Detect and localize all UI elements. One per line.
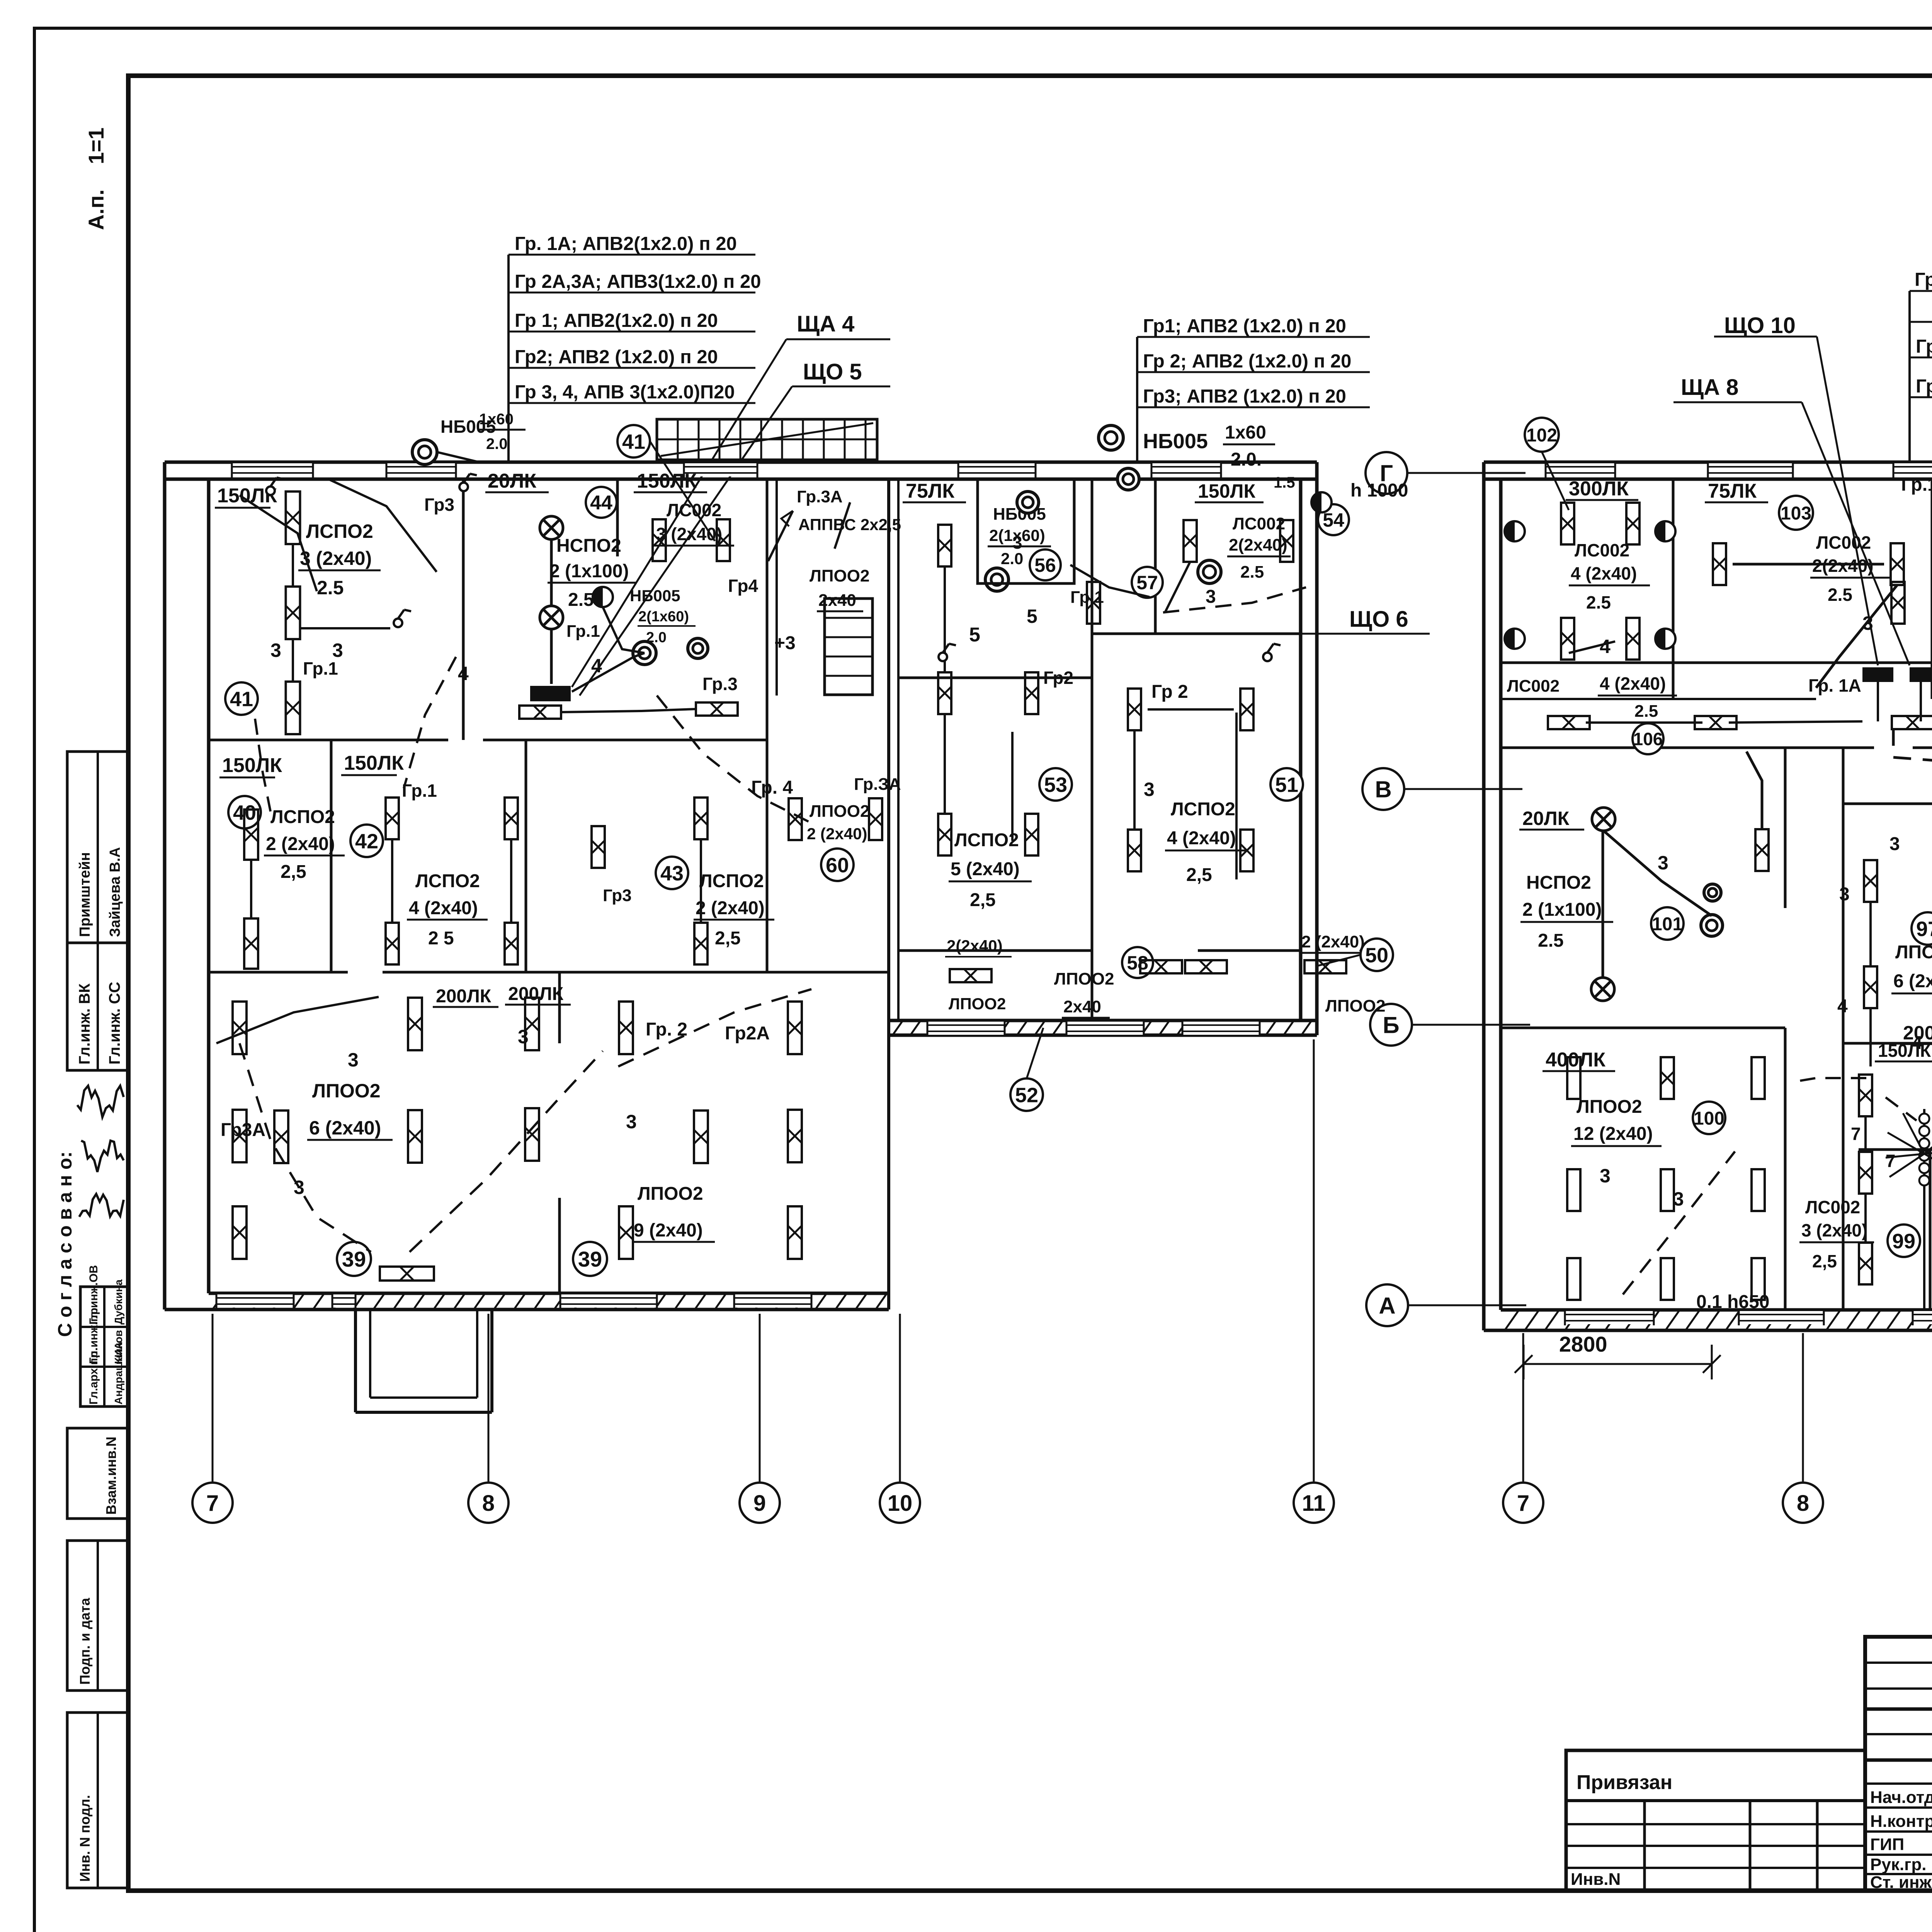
room/axis label 39: [337, 1242, 371, 1276]
luminaire: [233, 1002, 247, 1054]
room/axis label 9: [740, 1483, 780, 1523]
svg-text:ЛПОО2: ЛПОО2: [638, 1184, 703, 1204]
wall lamp: [688, 638, 708, 658]
wire: [1877, 682, 1879, 721]
svg-text:400ЛК: 400ЛК: [1546, 1049, 1605, 1071]
wire: [1886, 1097, 1917, 1121]
svg-text:ЛСПО2: ЛСПО2: [954, 830, 1019, 850]
svg-text:75ЛК: 75ЛК: [906, 480, 954, 502]
wire: [1893, 728, 1932, 763]
svg-text:ЛПОО2: ЛПОО2: [1054, 969, 1114, 988]
svg-text:ЛС002: ЛС002: [667, 500, 721, 520]
svg-text:Примштейн: Примштейн: [77, 852, 93, 937]
room/axis label 54: [1318, 504, 1349, 535]
wire: [1864, 1194, 1867, 1243]
luminaire: [1864, 860, 1877, 902]
sconce lamp: [1505, 521, 1525, 541]
svg-text:53: 53: [1044, 773, 1067, 796]
axis 8r: [1802, 1333, 1804, 1481]
svg-text:102: 102: [1526, 425, 1557, 446]
corridor walls right plan: [1501, 662, 1932, 664]
svg-text:3: 3: [1889, 834, 1900, 854]
svg-text:2 (1х100): 2 (1х100): [1522, 900, 1602, 920]
wall lamp: [1117, 468, 1139, 490]
wire: [328, 479, 437, 572]
wire: [1133, 730, 1136, 830]
wire: [1864, 1116, 1867, 1152]
svg-text:42: 42: [355, 830, 378, 853]
room/axis label 40: [228, 796, 261, 828]
svg-text:Гр. 1А: Гр. 1А: [1808, 675, 1861, 696]
luminaire: [869, 798, 882, 840]
room/axis label 103: [1779, 496, 1813, 530]
luminaire: [694, 798, 707, 839]
svg-text:2 (2х40): 2 (2х40): [266, 834, 335, 854]
wire: [561, 709, 696, 712]
pendant lamp: [1591, 978, 1614, 1001]
svg-text:ЛПОО2: ЛПОО2: [1577, 1097, 1642, 1117]
luminaire: [1661, 1057, 1674, 1099]
svg-text:+3: +3: [774, 633, 796, 653]
room/axis label 10: [880, 1483, 920, 1523]
svg-text:6 (2х40): 6 (2х40): [1893, 971, 1932, 992]
luminaire: [1713, 543, 1726, 585]
svg-text:Взам.инв.N: Взам.инв.N: [103, 1437, 119, 1515]
svg-text:ЛПОО2: ЛПОО2: [312, 1080, 381, 1102]
panel ЩА8: [1910, 667, 1932, 682]
svg-text:101: 101: [1652, 914, 1683, 934]
svg-text:Гр.3А: Гр.3А: [797, 487, 843, 506]
window: [1565, 1311, 1654, 1324]
svg-text:4: 4: [458, 663, 469, 684]
svg-text:С о г л а с о в а н о:: С о г л а с о в а н о:: [54, 1151, 76, 1337]
room/axis label 100: [1693, 1102, 1725, 1134]
wire: [572, 653, 645, 692]
svg-text:ЛСПО2: ЛСПО2: [306, 520, 373, 542]
room/axis label 102: [1525, 418, 1559, 452]
svg-text:20ЛК: 20ЛК: [1522, 808, 1570, 829]
wire: [1869, 1008, 1872, 1066]
luminaire: [1240, 830, 1253, 871]
wall lamp: [1704, 884, 1721, 901]
svg-text:1.5: 1.5: [1274, 474, 1295, 491]
svg-text:3 (2х40): 3 (2х40): [300, 548, 372, 569]
wire: [618, 989, 811, 1066]
luminaire: [1184, 520, 1197, 562]
svg-text:5: 5: [969, 624, 980, 646]
svg-text:ЛС002: ЛС002: [1507, 677, 1560, 696]
room/axis label 99: [1888, 1225, 1920, 1257]
svg-text:Гр. 1А; АПВ2(1х2.0) п 20: Гр. 1А; АПВ2(1х2.0) п 20: [515, 233, 737, 254]
wall lamp: [1017, 492, 1039, 513]
luminaire: [1661, 1258, 1674, 1300]
svg-text:2.5: 2.5: [317, 577, 344, 599]
svg-text:7: 7: [1517, 1491, 1529, 1516]
wall lamp: [1701, 915, 1723, 936]
window: [927, 1022, 1005, 1035]
wire: [410, 1051, 603, 1252]
svg-text:ЛС002: ЛС002: [1805, 1197, 1860, 1217]
wire: [292, 544, 294, 587]
svg-text:ЛСПО2: ЛСПО2: [1171, 799, 1235, 820]
luminaire: [274, 1111, 288, 1163]
svg-text:52: 52: [1015, 1083, 1038, 1107]
svg-text:ЛС002: ЛС002: [1575, 540, 1629, 560]
wire: [1542, 452, 1569, 510]
svg-text:6 (2х40): 6 (2х40): [309, 1117, 381, 1139]
sconce lamp: [1655, 521, 1675, 541]
luminaire: [286, 492, 300, 544]
wire: [550, 629, 553, 684]
luminaire: [1891, 582, 1905, 624]
svg-text:2 5: 2 5: [428, 928, 454, 949]
wire: [404, 657, 456, 788]
svg-text:2(2х40): 2(2х40): [947, 937, 1003, 955]
pendant lamp: [540, 516, 563, 539]
panel ЩО10: [1862, 667, 1893, 682]
svg-text:3: 3: [1206, 587, 1216, 607]
wall lamp: [1099, 425, 1123, 450]
svg-text:44: 44: [590, 492, 612, 514]
svg-text:4: 4: [1600, 636, 1611, 657]
svg-text:Гр.1: Гр.1: [402, 781, 437, 801]
svg-text:8: 8: [1797, 1491, 1809, 1516]
window: [958, 463, 1036, 476]
luminaire: [1859, 1243, 1872, 1284]
svg-text:1=1: 1=1: [84, 128, 108, 164]
svg-text:2,5: 2,5: [281, 862, 306, 882]
luminaire: [505, 798, 518, 839]
axis 11: [1313, 1039, 1315, 1481]
title block signature table: [1865, 1637, 1932, 1891]
svg-text:Инв. N подл.: Инв. N подл.: [77, 1795, 93, 1882]
svg-text:3: 3: [1673, 1188, 1684, 1210]
svg-text:ЛС002: ЛС002: [1233, 514, 1285, 533]
svg-text:4: 4: [1837, 996, 1848, 1017]
wire: [1148, 708, 1234, 711]
luminaire: [505, 923, 518, 964]
switch: [266, 486, 275, 495]
svg-text:ЛСПО2: ЛСПО2: [270, 807, 335, 827]
switch: [459, 483, 468, 491]
svg-text:3: 3: [270, 639, 281, 661]
luminaire: [1087, 582, 1100, 624]
svg-text:h 1000: h 1000: [1350, 480, 1408, 501]
room/axis label 39: [573, 1242, 607, 1276]
svg-text:4: 4: [1912, 1033, 1922, 1053]
luminaire: [1859, 1075, 1872, 1116]
room/axis label 41: [225, 682, 258, 715]
wire: [255, 719, 270, 811]
svg-text:Ст. инж.: Ст. инж.: [1870, 1873, 1932, 1892]
wire: [77, 1086, 124, 1117]
luminaire: [1561, 503, 1574, 544]
luminaire: [1892, 716, 1932, 729]
sconce lamp: [1311, 492, 1332, 512]
svg-text:11: 11: [1302, 1491, 1325, 1516]
wire: [1623, 1151, 1735, 1294]
luminaire: [592, 826, 605, 868]
svg-text:Гр 2,3; АПВ3 (1х2.0) п 20: Гр 2,3; АПВ3 (1х2.0) п 20: [1916, 376, 1932, 397]
svg-text:Гр.1А, 2А,3А, АПВ4(1х2.0)п20: Гр.1А, 2А,3А, АПВ4(1х2.0)п20: [1915, 269, 1932, 290]
wire: [1923, 1109, 1925, 1310]
svg-text:2(1х60): 2(1х60): [638, 609, 689, 625]
luminaire: [1752, 1258, 1765, 1300]
room/axis label 11: [1294, 1483, 1334, 1523]
wire: [661, 423, 873, 456]
window: [1913, 1311, 1932, 1324]
sconce lamp: [1655, 629, 1675, 649]
svg-text:58: 58: [1127, 952, 1148, 974]
luminaire: [788, 1002, 802, 1054]
svg-text:ЛПОО2: ЛПОО2: [1325, 997, 1385, 1015]
svg-text:Гр 1; АПВ2(1х2.0) п 20: Гр 1; АПВ2(1х2.0) п 20: [515, 310, 718, 331]
room/axis label 53: [1039, 768, 1072, 801]
axis 9: [759, 1314, 761, 1481]
svg-text:2 (2х40): 2 (2х40): [696, 898, 765, 918]
wire: [1027, 1028, 1043, 1078]
room/axis label 50: [1361, 939, 1393, 971]
wire: [391, 839, 393, 923]
svg-text:43: 43: [660, 862, 684, 885]
svg-text:150ЛК: 150ЛК: [222, 754, 282, 777]
svg-text:7: 7: [1886, 1151, 1896, 1171]
svg-text:4 (2х40): 4 (2х40): [1167, 828, 1236, 849]
svg-text:3: 3: [1839, 884, 1850, 905]
luminaire: [653, 519, 666, 561]
svg-text:ЩА 8: ЩА 8: [1681, 375, 1738, 400]
room/axis label В: [1362, 768, 1404, 810]
luminaire: [694, 923, 707, 964]
svg-text:ГИП: ГИП: [1870, 1835, 1904, 1854]
privyazan table: [1566, 1750, 1865, 1891]
luminaire: [1752, 1169, 1765, 1211]
window: [332, 1294, 355, 1308]
window: [1066, 1022, 1144, 1035]
luminaire: [525, 1108, 539, 1161]
room/axis label 7: [192, 1483, 233, 1523]
switch: [1263, 653, 1272, 661]
room/axis label 8: [1783, 1483, 1823, 1523]
svg-text:20ЛК: 20ЛК: [488, 470, 536, 492]
window: [734, 1294, 811, 1308]
podp i data box: [67, 1541, 128, 1690]
wire: [240, 495, 317, 591]
svg-text:Рук.гр.: Рук.гр.: [1870, 1855, 1927, 1874]
sconce lamp: [1505, 629, 1525, 649]
svg-text:КИА: КИА: [112, 1342, 124, 1364]
svg-text:3: 3: [1658, 852, 1668, 874]
svg-text:2.0.: 2.0.: [1231, 449, 1262, 470]
svg-text:3: 3: [294, 1177, 304, 1198]
room/axis label 57: [1132, 567, 1163, 598]
svg-text:3 (2х40): 3 (2х40): [1801, 1220, 1867, 1240]
wire: [1586, 721, 1702, 724]
luminaire: [938, 814, 951, 855]
room/axis label 60: [821, 849, 854, 881]
svg-text:Гр2; АПВ2 (1х2.0) п 20: Гр2; АПВ2 (1х2.0) п 20: [515, 347, 718, 367]
svg-text:2(2х40): 2(2х40): [1812, 556, 1874, 576]
svg-text:50: 50: [1365, 944, 1388, 967]
svg-text:106: 106: [1633, 729, 1663, 749]
vzam inv box: [67, 1428, 128, 1519]
luminaire: [386, 798, 399, 839]
luminaire: [1626, 618, 1639, 660]
wire: [580, 386, 792, 696]
luminaire: [519, 706, 561, 719]
luminaire: [1304, 960, 1346, 973]
svg-text:99: 99: [1892, 1230, 1915, 1253]
svg-text:4 (2х40): 4 (2х40): [1600, 673, 1666, 694]
svg-text:2.5: 2.5: [568, 590, 594, 610]
svg-text:3: 3: [348, 1049, 359, 1071]
axis 8: [488, 1314, 490, 1481]
svg-text:41: 41: [230, 687, 253, 711]
luminaire: [788, 1110, 802, 1162]
inv N podl box: [67, 1713, 128, 1888]
svg-text:Б: Б: [1383, 1012, 1399, 1038]
svg-text:100: 100: [1694, 1108, 1725, 1129]
wire: [300, 627, 390, 629]
svg-text:А.п.: А.п.: [84, 189, 108, 230]
svg-text:Гр.ЗА: Гр.ЗА: [854, 775, 901, 794]
svg-text:АППВС 2х2,5: АППВС 2х2,5: [798, 515, 901, 534]
luminaire: [717, 519, 730, 561]
window: [1893, 463, 1932, 476]
luminaire: [244, 810, 258, 860]
wire: [1235, 713, 1238, 879]
luminaire: [525, 998, 539, 1050]
svg-text:12 (2х40): 12 (2х40): [1573, 1124, 1653, 1144]
wall lamp: [1198, 560, 1221, 583]
svg-text:5: 5: [1027, 605, 1037, 627]
wire: [650, 441, 715, 541]
luminaire: [244, 918, 258, 969]
svg-text:60: 60: [826, 854, 849, 877]
svg-text:0.1 h650: 0.1 h650: [1696, 1292, 1769, 1312]
room/axis label 106: [1633, 723, 1663, 754]
svg-text:Зайцева В.А: Зайцева В.А: [107, 847, 123, 937]
lower partitions: [1784, 748, 1787, 908]
luminaire: [1025, 814, 1038, 855]
luminaire: [696, 702, 738, 716]
wire: [781, 511, 793, 526]
room/axis label 58: [1122, 947, 1153, 978]
wire: [1163, 587, 1306, 612]
room/axis label 56: [1030, 549, 1061, 580]
svg-text:2 (2х40): 2 (2х40): [807, 825, 867, 843]
svg-text:3: 3: [518, 1026, 529, 1048]
svg-text:НБ005: НБ005: [630, 587, 680, 605]
wire: [944, 566, 946, 672]
room/axis label 8: [468, 1483, 509, 1523]
wall lamp: [985, 568, 1009, 591]
luminaire: [286, 587, 300, 639]
window: [216, 1294, 294, 1308]
svg-text:ЛПОО2: ЛПОО2: [949, 995, 1006, 1013]
svg-text:Гр.1: Гр.1: [566, 622, 600, 641]
room/axis label 44: [586, 487, 617, 518]
svg-text:3: 3: [332, 639, 343, 661]
svg-text:10: 10: [888, 1491, 913, 1516]
luminaire: [380, 1267, 434, 1281]
svg-text:Дубкина: Дубкина: [112, 1279, 124, 1325]
svg-text:Гл.инж. СС: Гл.инж. СС: [106, 982, 123, 1065]
svg-text:Гр3А: Гр3А: [221, 1120, 265, 1140]
pendant lamp: [1592, 808, 1615, 831]
wire: [240, 1043, 371, 1252]
luminaire: [1695, 716, 1736, 729]
svg-text:Гр 2А,3А; АПВ3(1х2.0) п 20: Гр 2А,3А; АПВ3(1х2.0) п 20: [515, 271, 761, 292]
wire: [944, 714, 946, 814]
wire: [657, 696, 811, 823]
svg-text:2 (1х100): 2 (1х100): [549, 561, 629, 582]
luminaire: [408, 998, 422, 1050]
svg-text:Гр3: Гр3: [424, 495, 454, 515]
window: [1151, 463, 1221, 476]
svg-text:41: 41: [622, 430, 645, 453]
luminaire: [1140, 960, 1182, 973]
luminaire: [1755, 829, 1769, 871]
luminaire: [1567, 1169, 1580, 1211]
svg-text:Гр 3, 4, АПВ 3(1х2.0)П20: Гр 3, 4, АПВ 3(1х2.0)П20: [515, 382, 735, 403]
LEFT PLAN outer walls: [165, 461, 1317, 464]
svg-text:51: 51: [1275, 773, 1298, 796]
svg-text:4 (2х40): 4 (2х40): [1571, 563, 1637, 583]
svg-text:Гр1; АПВ 2 (1х2.0) п 20: Гр1; АПВ 2 (1х2.0) п 20: [1916, 336, 1932, 357]
axis 10: [899, 1314, 901, 1481]
wire: [1869, 902, 1872, 966]
wire: [1817, 337, 1878, 665]
luminaire: [233, 1110, 247, 1162]
svg-text:7: 7: [1851, 1124, 1861, 1144]
svg-text:А: А: [1379, 1293, 1395, 1319]
window: [386, 463, 456, 476]
svg-text:Гр3: Гр3: [603, 886, 632, 905]
luminaire: [1752, 1057, 1765, 1099]
wire: [603, 607, 645, 653]
luminaire: [386, 923, 399, 964]
svg-text:Гр2: Гр2: [1043, 668, 1073, 688]
svg-text:ЛПОО2: ЛПОО2: [810, 802, 869, 821]
wire: [1816, 585, 1897, 688]
switch: [939, 653, 947, 661]
window: [560, 1294, 657, 1308]
top band partitions: [1672, 479, 1675, 699]
room/axis label 97: [1912, 912, 1932, 945]
wire: [216, 997, 379, 1043]
svg-text:Гр 2; АПВ2 (1х2.0) п 20: Гр 2; АПВ2 (1х2.0) п 20: [1143, 351, 1351, 372]
luminaire: [233, 1206, 247, 1259]
svg-text:9 (2х40): 9 (2х40): [634, 1220, 703, 1241]
svg-text:8: 8: [482, 1491, 495, 1516]
svg-text:150ЛК: 150ЛК: [1198, 480, 1256, 502]
svg-text:Гр3; АПВ2 (1х2.0) п 20: Гр3; АПВ2 (1х2.0) п 20: [1143, 386, 1346, 407]
svg-text:1х60: 1х60: [479, 411, 514, 428]
svg-text:В: В: [1375, 777, 1391, 803]
wiring to panel: [530, 686, 571, 701]
entrance vestibule: [354, 1310, 357, 1412]
luminaire: [789, 798, 802, 840]
luminaire: [1859, 1152, 1872, 1194]
luminaire: [938, 525, 951, 566]
svg-text:2,5: 2,5: [1186, 865, 1212, 885]
svg-text:150ЛК: 150ЛК: [344, 752, 404, 774]
svg-text:Гр.1: Гр.1: [303, 658, 338, 679]
svg-text:9: 9: [753, 1491, 766, 1516]
svg-text:2х40: 2х40: [1063, 997, 1101, 1016]
wire: [1011, 732, 1014, 841]
